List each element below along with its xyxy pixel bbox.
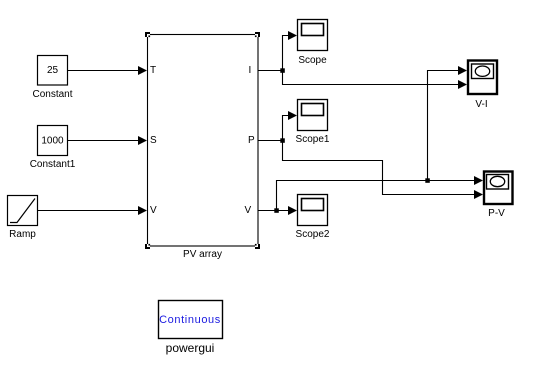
wire Constant to PV array T input: [68, 66, 148, 75]
node J1 junction dot: [280, 68, 285, 73]
ramp source block Ramp: [8, 196, 38, 241]
svg-text:PV array: PV array: [183, 249, 222, 260]
scope block Scope2: [296, 195, 330, 241]
selection handle top-right of PV array: [255, 32, 260, 37]
svg-text:T: T: [150, 65, 156, 76]
svg-text:1000: 1000: [41, 136, 64, 147]
XY graph block P-V: [484, 172, 513, 220]
svg-text:Constant: Constant: [32, 89, 72, 100]
scope block Scope1: [296, 100, 330, 146]
svg-text:Scope1: Scope1: [296, 134, 330, 145]
svg-text:Scope2: Scope2: [296, 229, 330, 240]
constant block Constant1 value 1000: [30, 126, 76, 171]
scope block Scope: [298, 20, 328, 67]
wire node J1 up to Scope input: [283, 31, 298, 71]
wire I output to node J1: [258, 70, 283, 72]
node J4 junction dot: [425, 178, 430, 183]
node J3 junction dot: [274, 208, 279, 213]
svg-text:25: 25: [47, 65, 59, 76]
svg-text:V: V: [150, 205, 157, 216]
svg-text:powergui: powergui: [166, 341, 215, 355]
wire Ramp to PV array V input: [38, 206, 148, 215]
selection handle top-left of PV array: [145, 32, 150, 37]
constant block Constant value 25: [32, 56, 72, 101]
selection handle bottom-right of PV array: [255, 244, 260, 249]
svg-text:Constant1: Constant1: [30, 159, 76, 170]
wire node J1 down then right to V-I second input: [283, 71, 468, 90]
svg-text:Scope: Scope: [298, 55, 327, 66]
svg-text:Ramp: Ramp: [9, 229, 36, 240]
svg-text:V: V: [245, 205, 252, 216]
powergui block Continuous: [159, 301, 223, 356]
svg-text:P: P: [248, 135, 255, 146]
node J2 junction dot: [280, 138, 285, 143]
wire node J4 up to V-I first input: [428, 66, 468, 181]
XY graph block V-I: [468, 61, 497, 111]
subsystem block PV array: [148, 35, 259, 261]
wire Constant1 to PV array S input: [68, 136, 148, 145]
svg-text:I: I: [249, 65, 252, 76]
svg-text:P-V: P-V: [488, 208, 505, 219]
svg-text:S: S: [150, 135, 157, 146]
wire node J2 up to Scope1 input: [283, 111, 298, 141]
svg-text:Continuous: Continuous: [159, 314, 221, 326]
selection handle bottom-left of PV array: [145, 244, 150, 249]
wire P output to node J2: [258, 140, 283, 142]
svg-text:V-I: V-I: [475, 99, 487, 110]
wire V output through node J3 to Scope2 input: [258, 206, 297, 215]
wire node J2 down, stepped right to P-V second input: [283, 141, 484, 200]
wire node J3 up then right to node J4 and P-V first input: [277, 176, 484, 211]
